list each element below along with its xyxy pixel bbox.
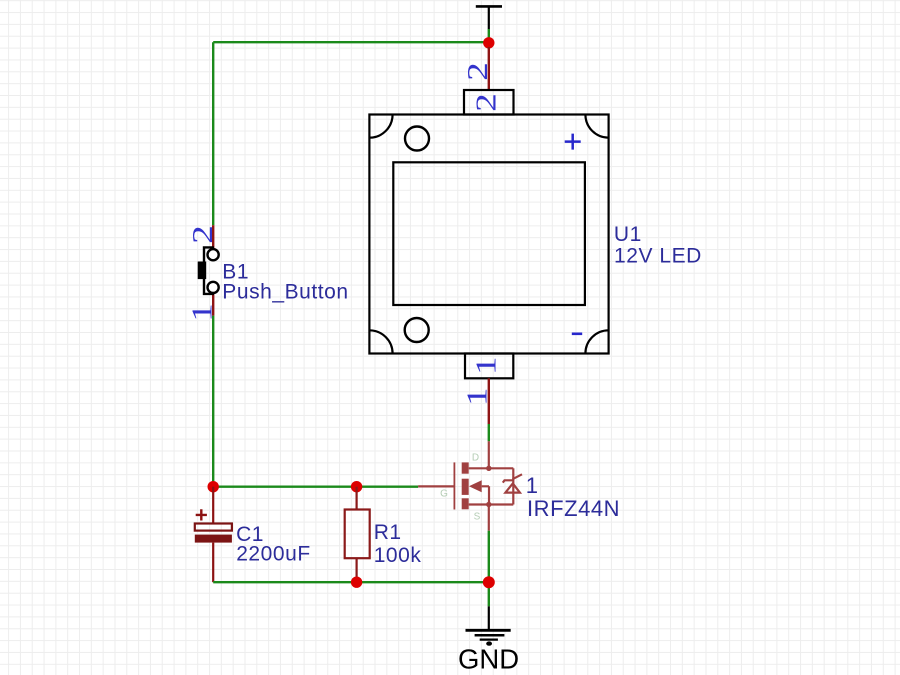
C1 top lead: [212, 487, 214, 524]
arrow link to source: [482, 486, 489, 504]
U1 bottom pad pin 1: [465, 354, 513, 379]
wire: Q1 source green: [488, 531, 490, 583]
B1 bridge bar: [204, 247, 214, 294]
C1 plus mark: [196, 509, 207, 520]
ground bar 1: [466, 629, 511, 632]
wire: left vertical green upper: [212, 42, 214, 225]
ground bar 3: [480, 638, 498, 640]
svg-text:1: 1: [472, 357, 503, 375]
node: junction dot R1 bottom: [351, 577, 362, 588]
U1 corner arc top-right: [585, 115, 608, 138]
body diode cathode bar: [503, 474, 522, 482]
svg-text:D: D: [472, 453, 479, 464]
wire: top horizontal green: [213, 41, 489, 43]
wire: middle horizontal green: [213, 486, 418, 488]
gate vertical line: [453, 462, 455, 509]
wire: U1 pin2 lead (dark red): [488, 47, 490, 90]
wire: bottom horizontal green: [213, 581, 489, 583]
svg-text:100k: 100k: [374, 544, 422, 567]
svg-text:12V LED: 12V LED: [614, 245, 702, 268]
svg-text:G: G: [440, 489, 448, 500]
B1 pin 1 lead: [212, 293, 214, 316]
svg-text:1: 1: [462, 388, 493, 406]
svg-text:2: 2: [472, 93, 503, 111]
U1 corner arc top-left: [369, 115, 392, 138]
svg-text:2: 2: [188, 225, 219, 243]
internal junction dots: [486, 466, 491, 471]
svg-text:Push_Button: Push_Button: [222, 280, 348, 303]
B1 contact circle top: [208, 249, 219, 260]
U1 mounting hole bottom-left: [405, 318, 429, 342]
drain horizontal: [469, 467, 514, 469]
U1 mounting hole top-left: [405, 127, 429, 151]
node: junction dot GND: [483, 576, 495, 588]
source lead: [488, 505, 490, 531]
B1 contact circle bottom: [208, 282, 219, 293]
U1 corner arc bottom-left: [369, 330, 392, 353]
R1 bottom lead: [356, 558, 358, 582]
gate lead: [418, 485, 454, 487]
U1 minus mark: [572, 332, 582, 335]
B1 pin 2 lead: [212, 225, 214, 249]
drain lead: [488, 441, 490, 468]
ground symbol: [466, 606, 511, 639]
svg-text:1: 1: [188, 303, 219, 321]
R1 top lead: [356, 487, 358, 510]
power flag top (T bar): [476, 6, 502, 29]
svg-text:IRFZ44N: IRFZ44N: [527, 496, 620, 521]
svg-text:U1: U1: [614, 223, 642, 246]
Q1 channel bars: [462, 462, 492, 509]
ground bar 2: [475, 634, 505, 637]
ground lead: [488, 606, 490, 630]
node: junction dot top: [483, 37, 494, 48]
svg-text:2200uF: 2200uF: [236, 543, 311, 566]
source horizontal: [469, 503, 514, 505]
U1 plus mark: [565, 134, 581, 150]
transistor Q1 IRFZ44N: [418, 441, 522, 530]
R1 body: [345, 510, 370, 559]
svg-text:GND: GND: [458, 644, 519, 675]
C1 bottom plate (filled): [195, 535, 232, 543]
op-amp U1 body outline: [369, 115, 608, 354]
wire: U1 pin1 lead dark red: [488, 378, 490, 424]
B1 plunger: [198, 262, 207, 280]
wire: green below junction: [488, 582, 490, 606]
C1 top plate (hollow): [195, 524, 232, 531]
wire: green segment to Q1 drain: [488, 424, 490, 441]
svg-text:R1: R1: [374, 521, 402, 544]
ground dot: [486, 641, 492, 645]
node: junction dot left: [208, 481, 219, 492]
C1 bottom lead: [212, 543, 214, 583]
svg-text:2: 2: [463, 62, 494, 80]
arrow: [469, 480, 482, 492]
node: junction dot R1 top: [351, 481, 362, 492]
svg-text:S: S: [474, 512, 481, 523]
U1 inner rectangle: [393, 162, 585, 305]
right branch vertical (body diode axis): [512, 468, 514, 504]
body diode triangle: [505, 483, 520, 492]
svg-text:1: 1: [526, 473, 539, 498]
wire: top vertical green segment: [488, 29, 490, 42]
U1 corner arc bottom-right: [585, 330, 608, 353]
wire: left vertical green lower: [212, 316, 214, 487]
U1 top pad pin 2: [464, 90, 514, 115]
